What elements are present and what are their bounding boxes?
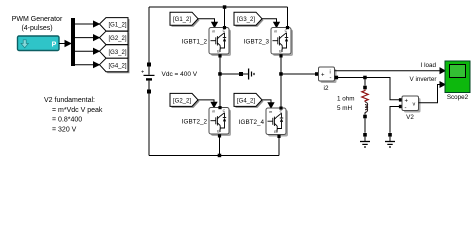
- wire i2 - to V2 + corner: [338, 78, 400, 100]
- svg-text:v: v: [413, 102, 416, 108]
- wire rail down to IGBT1_2 C: [224, 7, 226, 26]
- from tag [G4_2]: [234, 93, 264, 108]
- svg-text:i: i: [330, 69, 331, 75]
- left rail bottom: [148, 94, 150, 156]
- svg-text:[G2_2]: [G2_2]: [173, 98, 191, 104]
- top DC rail: [149, 6, 288, 8]
- goto tag [G3_2]: [100, 45, 130, 60]
- label 1 ohm 5 mH: [337, 96, 355, 113]
- wire i2 i output to Scope2 input 1: [335, 70, 441, 72]
- wire demux to [G4_2]: [75, 64, 94, 66]
- wire rail down to IGBT2_3 C: [287, 7, 289, 26]
- junction top rail / IGBT1_2 C: [223, 5, 227, 9]
- wire demux to [G1_2]: [75, 23, 94, 25]
- battery symbol Vdc: [148, 67, 150, 75]
- wire demux to [G2_2]: [75, 37, 94, 39]
- svg-text:IGBT1_2: IGBT1_2: [182, 39, 208, 46]
- bottom rail: [149, 155, 279, 157]
- svg-text:i2: i2: [324, 85, 329, 92]
- junction left leg mid: [218, 72, 222, 76]
- svg-text:[G1_2]: [G1_2]: [108, 23, 126, 29]
- resistor R 1 ohm: [362, 90, 368, 102]
- junction load branch: [363, 76, 367, 80]
- PWM Generator block U1: [18, 36, 60, 51]
- Scope2 block: [445, 61, 470, 93]
- wire to middle ground: [220, 73, 239, 75]
- svg-text:-: -: [405, 106, 407, 112]
- wire right leg to i2: [281, 73, 315, 75]
- svg-text:Scope2: Scope2: [447, 94, 469, 101]
- svg-text:[G3_2]: [G3_2]: [108, 50, 126, 56]
- svg-text:IGBT2_2: IGBT2_2: [182, 119, 208, 126]
- ground under RLC: [360, 133, 370, 147]
- IGBT2_4 block: [266, 107, 288, 139]
- from tag [G2_2]: [170, 93, 200, 108]
- svg-text:[G4_2]: [G4_2]: [108, 63, 126, 69]
- PWM Generator label: [12, 16, 63, 32]
- svg-text:(4-pulses): (4-pulses): [21, 25, 52, 32]
- svg-text:V inverter: V inverter: [410, 76, 437, 83]
- junction bottom rail / IGBT2_2 E: [218, 154, 222, 158]
- wire demux to [G3_2]: [75, 50, 94, 52]
- goto tag [G1_2]: [100, 18, 130, 33]
- svg-text:= m*Vdc V peak: = m*Vdc V peak: [52, 107, 103, 114]
- svg-text:IGBT2_4: IGBT2_4: [239, 119, 265, 126]
- svg-text:= 0.8*400: = 0.8*400: [52, 117, 82, 124]
- wire IGBT2_4 E down to rail: [278, 138, 280, 156]
- svg-text:Vdc = 400 V: Vdc = 400 V: [162, 71, 198, 78]
- wire V2 - to ground: [390, 107, 399, 133]
- svg-text:I load: I load: [421, 62, 437, 69]
- svg-text:1 ohm: 1 ohm: [337, 96, 355, 103]
- svg-text:5 mH: 5 mH: [337, 105, 352, 112]
- current sensor i2: [315, 67, 338, 83]
- goto tag [G4_2]: [100, 58, 130, 73]
- wire IGBT2_2 E down to rail: [219, 136, 221, 156]
- svg-text:= 320 V: = 320 V: [52, 126, 77, 133]
- demux: [71, 18, 75, 66]
- wire [G3_2] to IGBT2_3 gate: [262, 19, 277, 23]
- right leg mid wire: [280, 56, 282, 108]
- IGBT2_2 block: [209, 106, 231, 138]
- from tag [G3_2]: [234, 12, 264, 27]
- wire [G2_2] to IGBT2_2 gate: [198, 100, 214, 103]
- DC source port squares: [147, 63, 151, 67]
- IGBT2_3 block: [271, 26, 293, 58]
- from tag [G1_2]: [170, 12, 200, 27]
- middle ground port: [239, 72, 243, 76]
- svg-text:-: -: [330, 76, 332, 82]
- svg-text:[G3_2]: [G3_2]: [237, 17, 255, 23]
- junction right leg mid: [279, 72, 283, 76]
- wire V2 v output to Scope2 input 2: [419, 85, 441, 103]
- svg-text:PWM Generator: PWM Generator: [12, 16, 63, 23]
- svg-text:V2: V2: [406, 114, 414, 121]
- left leg mid wire: [219, 56, 221, 107]
- annotation V2 fundamental: [44, 97, 103, 133]
- svg-text:V2 fundamental:: V2 fundamental:: [44, 97, 95, 104]
- wire PWM P to demux: [59, 43, 66, 45]
- ground under V2: [385, 133, 395, 147]
- inductor L 5 mH: [365, 102, 368, 112]
- svg-text:[G4_2]: [G4_2]: [237, 98, 255, 104]
- svg-text:+: +: [405, 99, 409, 105]
- svg-text:+: +: [321, 72, 325, 78]
- svg-text:[G2_2]: [G2_2]: [108, 36, 126, 42]
- wire [G4_2] to IGBT2_4 gate: [262, 100, 271, 103]
- series RLC branch 1 ohm 5 mH: [362, 78, 368, 133]
- wire [G1_2] to IGBT1_2 gate: [198, 19, 215, 23]
- goto tag [G2_2]: [100, 31, 130, 46]
- IGBT1_2 block: [209, 26, 231, 58]
- middle ground symbol: [243, 73, 248, 75]
- DC source Vdc left rail top: [148, 7, 150, 63]
- svg-text:IGBT2_3: IGBT2_3: [244, 39, 270, 46]
- svg-text:[G1_2]: [G1_2]: [173, 17, 191, 23]
- voltage sensor V2: [399, 96, 421, 113]
- svg-text:+: +: [141, 70, 144, 76]
- svg-text:P: P: [52, 42, 57, 49]
